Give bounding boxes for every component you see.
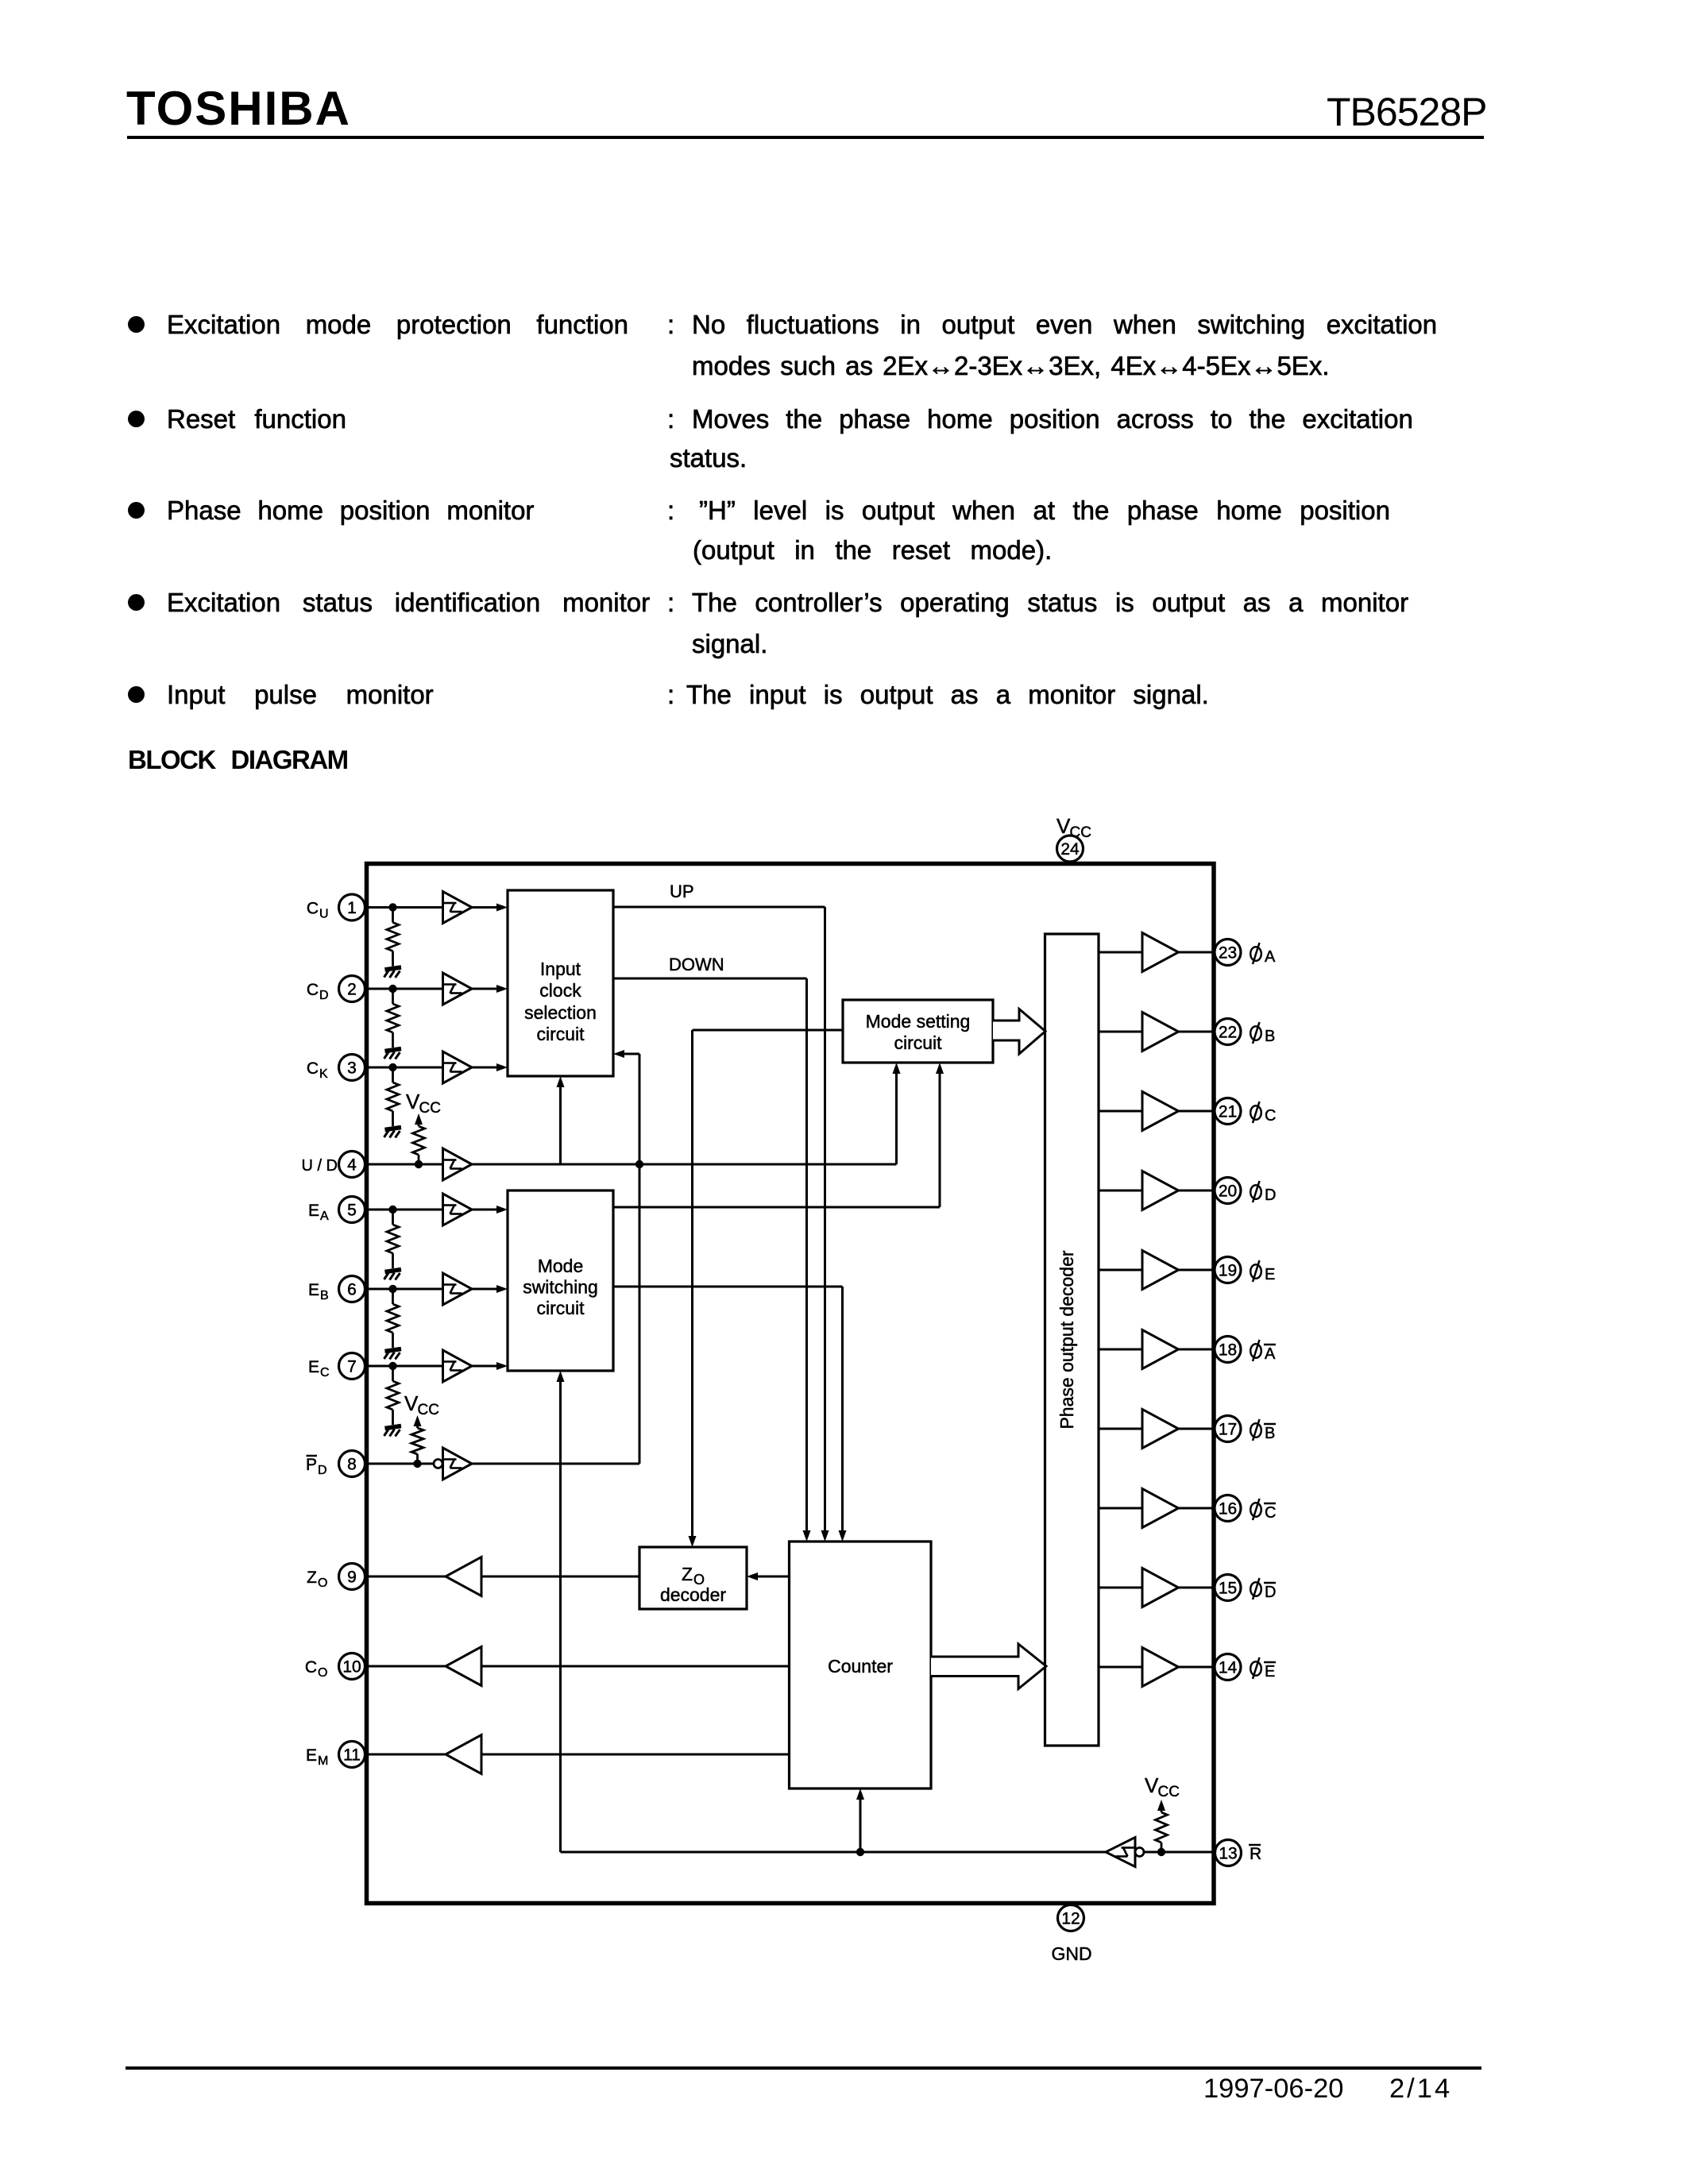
svg-text:Counter: Counter <box>828 1656 893 1677</box>
svg-text:clock: clock <box>539 980 581 1001</box>
svg-text:selection: selection <box>524 1002 597 1023</box>
svg-text:8: 8 <box>347 1456 357 1474</box>
svg-text:E: E <box>308 1202 319 1220</box>
svg-text:C: C <box>307 900 319 918</box>
svg-text:15: 15 <box>1219 1580 1237 1598</box>
svg-text:Input: Input <box>540 959 581 979</box>
svg-text:1: 1 <box>347 899 357 917</box>
svg-text:circuit: circuit <box>536 1298 585 1318</box>
svg-text:20: 20 <box>1219 1183 1237 1201</box>
svg-text:CC: CC <box>1070 824 1091 841</box>
svg-text:CC: CC <box>419 1100 441 1117</box>
svg-text:22: 22 <box>1219 1024 1237 1042</box>
svg-text:9: 9 <box>347 1569 357 1587</box>
svg-text:A: A <box>1265 1345 1276 1363</box>
svg-text:C: C <box>1265 1504 1276 1522</box>
svg-text:5: 5 <box>347 1202 357 1220</box>
svg-text:C: C <box>1265 1107 1276 1125</box>
svg-text:UP: UP <box>670 882 694 901</box>
svg-text:23: 23 <box>1219 944 1237 963</box>
svg-text:CC: CC <box>418 1402 439 1418</box>
svg-text:A: A <box>1265 948 1276 966</box>
svg-text:E: E <box>306 1746 317 1765</box>
svg-text:16: 16 <box>1219 1500 1237 1518</box>
svg-text:D: D <box>318 1464 327 1477</box>
svg-text:V: V <box>406 1090 420 1113</box>
svg-text:4: 4 <box>347 1156 357 1175</box>
svg-text:U: U <box>319 908 329 921</box>
svg-text:3: 3 <box>347 1059 357 1078</box>
svg-text:E: E <box>308 1281 319 1299</box>
svg-text:O: O <box>318 1576 327 1590</box>
svg-text:DOWN: DOWN <box>669 955 724 974</box>
svg-text:12: 12 <box>1061 1910 1080 1928</box>
svg-text:O: O <box>318 1666 327 1680</box>
svg-text:7: 7 <box>347 1358 357 1376</box>
svg-text:switching: switching <box>523 1277 598 1298</box>
svg-text:18: 18 <box>1219 1341 1237 1360</box>
svg-text:D: D <box>319 989 329 1002</box>
svg-text:C: C <box>307 981 319 999</box>
svg-text:K: K <box>319 1067 328 1081</box>
svg-text:24: 24 <box>1060 840 1080 859</box>
svg-text:17: 17 <box>1219 1421 1237 1439</box>
svg-text:E: E <box>1265 1663 1275 1680</box>
svg-text:GND: GND <box>1051 1943 1091 1964</box>
svg-text:Z: Z <box>307 1569 317 1587</box>
svg-text:P: P <box>306 1456 317 1474</box>
svg-text:B: B <box>1265 1425 1275 1442</box>
svg-text:V: V <box>1056 814 1071 838</box>
svg-text:10: 10 <box>342 1658 361 1677</box>
svg-text:19: 19 <box>1219 1262 1237 1280</box>
svg-text:Mode: Mode <box>538 1256 584 1276</box>
svg-text:B: B <box>1265 1028 1275 1045</box>
svg-text:A: A <box>320 1210 329 1223</box>
svg-text:Phase output decoder: Phase output decoder <box>1056 1250 1077 1429</box>
svg-text:C: C <box>320 1366 330 1379</box>
svg-text:R: R <box>1250 1845 1261 1863</box>
svg-text:Mode setting: Mode setting <box>866 1011 971 1032</box>
svg-text:E: E <box>308 1358 319 1376</box>
svg-text:circuit: circuit <box>894 1032 942 1053</box>
svg-text:U / D: U / D <box>301 1157 338 1175</box>
svg-text:6: 6 <box>347 1281 357 1299</box>
svg-text:D: D <box>1265 1187 1276 1204</box>
svg-text:14: 14 <box>1219 1659 1238 1677</box>
svg-text:decoder: decoder <box>660 1584 726 1605</box>
svg-text:2: 2 <box>347 981 357 999</box>
svg-text:11: 11 <box>343 1746 361 1765</box>
svg-text:V: V <box>404 1391 419 1415</box>
svg-text:13: 13 <box>1219 1845 1237 1863</box>
svg-text:B: B <box>320 1289 329 1302</box>
svg-text:CC: CC <box>1158 1784 1180 1800</box>
svg-text:C: C <box>305 1658 317 1677</box>
svg-text:21: 21 <box>1219 1103 1237 1121</box>
svg-text:M: M <box>318 1754 328 1768</box>
svg-text:D: D <box>1265 1584 1276 1601</box>
svg-text:V: V <box>1145 1773 1159 1797</box>
svg-text:Z: Z <box>682 1564 693 1584</box>
svg-text:E: E <box>1265 1266 1275 1283</box>
svg-text:C: C <box>307 1059 319 1078</box>
svg-text:circuit: circuit <box>536 1024 585 1044</box>
